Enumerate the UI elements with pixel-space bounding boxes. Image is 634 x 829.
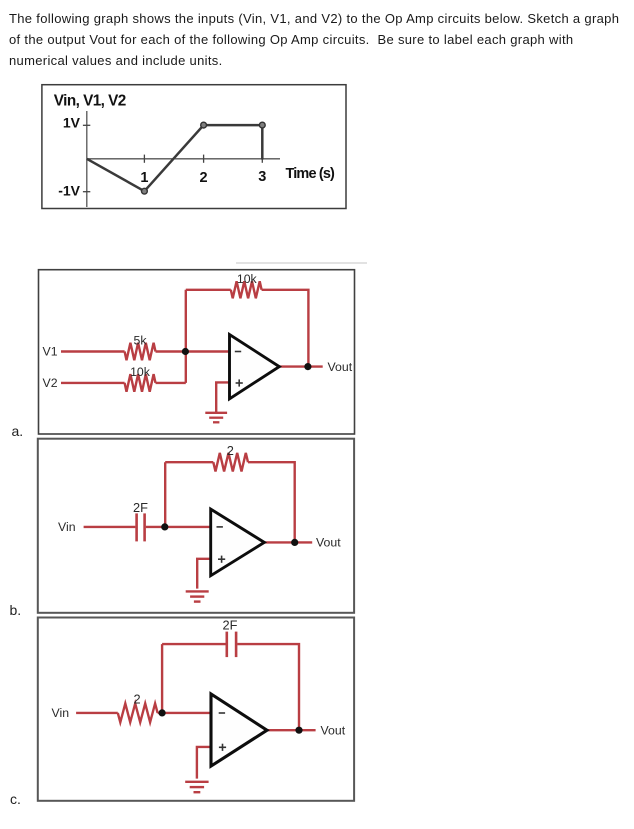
ground bars b	[186, 590, 209, 592]
resistor R2 10k	[125, 374, 156, 392]
node C (inverting junction)	[159, 709, 166, 716]
t=3 tick	[261, 155, 263, 163]
svg-text:2: 2	[133, 692, 140, 707]
wire feedback top right b	[248, 462, 295, 542]
scan artifact line above box a	[236, 262, 367, 264]
ground bars c	[185, 781, 208, 783]
wire V2 input	[61, 382, 125, 384]
wire non-inverting to ground b	[197, 559, 211, 589]
resistor Rf 10k feedback	[231, 281, 262, 298]
svg-text:1: 1	[140, 170, 148, 186]
svg-text:V1: V1	[43, 345, 58, 359]
wire resistor to node c	[158, 712, 163, 714]
node output c	[295, 727, 302, 734]
resistor R1 5k	[125, 343, 156, 361]
wire feedback top left c	[162, 643, 226, 645]
circuit c frame	[38, 618, 354, 801]
wire riser V2 to node to feedback	[185, 290, 187, 383]
svg-text:5k: 5k	[134, 334, 148, 348]
wire op-amp output b	[264, 541, 312, 543]
svg-text:c.: c.	[10, 791, 21, 807]
op-amp minus sign b	[217, 526, 223, 528]
1V tick	[83, 124, 90, 126]
op-amp U2	[211, 509, 265, 576]
svg-text:Vin: Vin	[58, 520, 76, 534]
wire feedback top left b	[165, 461, 213, 463]
op-amp plus sign	[236, 382, 243, 384]
paragraph text	[9, 9, 619, 71]
circuit b frame	[38, 439, 354, 613]
svg-text:2F: 2F	[133, 500, 148, 515]
op-amp minus sign	[235, 351, 241, 353]
t=2 tick	[203, 155, 205, 163]
wire feedback top right c	[237, 644, 299, 730]
svg-text:Vin, V1, V2: Vin, V1, V2	[54, 93, 126, 110]
wire Vin input c	[76, 712, 118, 714]
node B (inverting junction)	[161, 523, 168, 530]
svg-text:Vout: Vout	[321, 724, 346, 738]
wire cap to node	[146, 526, 165, 528]
wire op-amp output c	[267, 729, 316, 731]
t=1 tick	[143, 155, 145, 163]
wire feedback top right	[262, 290, 309, 367]
op-amp minus sign c	[219, 712, 225, 714]
node A (summing junction)	[182, 348, 189, 355]
node output b	[291, 539, 298, 546]
svg-text:a.: a.	[12, 423, 24, 439]
svg-text:-1V: -1V	[58, 182, 80, 198]
circuit a frame	[39, 270, 355, 434]
capacitor C1 2F plates	[135, 513, 138, 541]
wire node to inverting input c	[162, 712, 211, 714]
capacitor C2 2F plates	[226, 632, 229, 658]
svg-text:Vin: Vin	[52, 706, 70, 720]
waveform Vin,V1,V2	[87, 125, 262, 191]
wire node to inverting input b	[165, 526, 211, 528]
waveform point (2,1)	[201, 122, 207, 128]
svg-text:1V: 1V	[63, 114, 81, 130]
wire 5k to node	[156, 350, 186, 352]
svg-text:2F: 2F	[223, 618, 238, 633]
wire riser node to feedback b	[164, 462, 166, 527]
wire node to op-amp inverting input	[186, 350, 230, 352]
wire Vin input b	[84, 526, 136, 528]
op-amp plus sign b	[218, 558, 225, 560]
resistor R 2 input c	[118, 704, 158, 723]
svg-text:3: 3	[258, 169, 266, 185]
-1V tick	[83, 191, 90, 193]
svg-text:Vout: Vout	[316, 536, 341, 550]
waveform point (1,-1)	[142, 188, 148, 194]
svg-text:2: 2	[200, 170, 208, 186]
wire non-inverting to ground	[216, 382, 229, 412]
svg-text:2: 2	[227, 443, 234, 458]
node output a	[304, 363, 311, 370]
svg-text:Vout: Vout	[328, 360, 353, 374]
y axis	[86, 111, 88, 207]
input waveform graph box	[42, 85, 346, 209]
wire non-inverting to ground c	[197, 747, 211, 779]
wire feedback top left	[186, 289, 231, 291]
op-amp plus sign c	[219, 746, 226, 748]
svg-text:10k: 10k	[130, 365, 151, 379]
wire op-amp output	[279, 365, 322, 367]
svg-text:10k: 10k	[237, 272, 258, 286]
wire 10k to riser	[156, 382, 186, 384]
svg-text:Time (s): Time (s)	[286, 166, 336, 182]
wire riser node to feedback c	[161, 644, 163, 713]
waveform point (3,1)	[259, 122, 265, 128]
ground bars	[205, 412, 227, 414]
x axis (zero line)	[87, 158, 280, 160]
svg-text:V2: V2	[43, 376, 58, 390]
op-amp U3	[211, 694, 267, 766]
resistor Rf 2 feedback b	[213, 453, 248, 472]
svg-text:b.: b.	[10, 602, 22, 618]
wire V1 input	[61, 350, 125, 352]
op-amp U1	[230, 335, 280, 399]
